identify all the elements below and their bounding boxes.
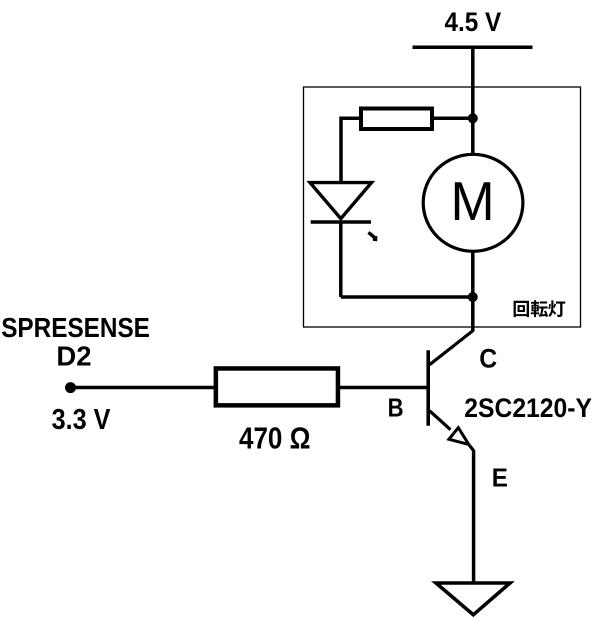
node junction top — [468, 113, 478, 123]
label D2 — [56, 341, 91, 372]
resistor R (inside box) — [361, 109, 432, 130]
wire rail to motor — [471, 47, 475, 155]
power rail 4.5V — [413, 45, 533, 49]
wire motor bottom to node — [471, 252, 475, 297]
ground symbol — [436, 583, 510, 615]
enclosure box 回転灯 unit — [304, 87, 581, 327]
label E — [492, 464, 508, 493]
label 470 ohm — [239, 422, 310, 457]
label 回転灯 — [514, 300, 566, 317]
label 2SC2120-Y — [464, 394, 592, 423]
transistor Q1 emitter line — [430, 411, 451, 430]
svg-text:D2: D2 — [56, 341, 91, 372]
label 4.5 V supply — [445, 8, 502, 37]
wire LED to bottom — [339, 222, 343, 297]
label 3.3 V — [52, 404, 111, 436]
wire resistor to base — [340, 386, 427, 390]
wire bottom horizontal — [341, 295, 473, 299]
label C — [479, 344, 497, 373]
svg-text:SPRESENSE: SPRESENSE — [1, 312, 150, 344]
svg-text:3.3 V: 3.3 V — [52, 404, 111, 436]
svg-text:B: B — [388, 394, 404, 423]
LED arrow — [368, 232, 377, 241]
svg-text:M: M — [451, 171, 495, 232]
LED cathode bar — [311, 220, 371, 223]
svg-text:470 Ω: 470 Ω — [239, 422, 310, 457]
svg-text:4.5 V: 4.5 V — [445, 8, 502, 37]
wire resistor left to LED — [341, 118, 359, 184]
LED D1 triangle — [310, 183, 372, 219]
transistor Q1 collector line — [471, 297, 475, 332]
transistor Q1 base bar — [426, 350, 430, 426]
label SPRESENSE — [1, 312, 150, 344]
label B — [388, 394, 404, 423]
node D2 input dot — [65, 382, 76, 393]
resistor 470 ohm — [216, 368, 338, 405]
motor M circle — [423, 154, 523, 251]
motor label M — [451, 171, 495, 232]
svg-text:E: E — [492, 464, 508, 493]
node junction bottom — [468, 292, 478, 302]
wire resistor right to node — [434, 117, 473, 121]
wire D2 to resistor — [71, 386, 217, 390]
wire emitter to ground — [472, 450, 476, 583]
svg-text:2SC2120-Y: 2SC2120-Y — [464, 394, 592, 423]
transistor Q1 emitter arrow — [449, 428, 469, 445]
svg-text:C: C — [479, 344, 497, 373]
